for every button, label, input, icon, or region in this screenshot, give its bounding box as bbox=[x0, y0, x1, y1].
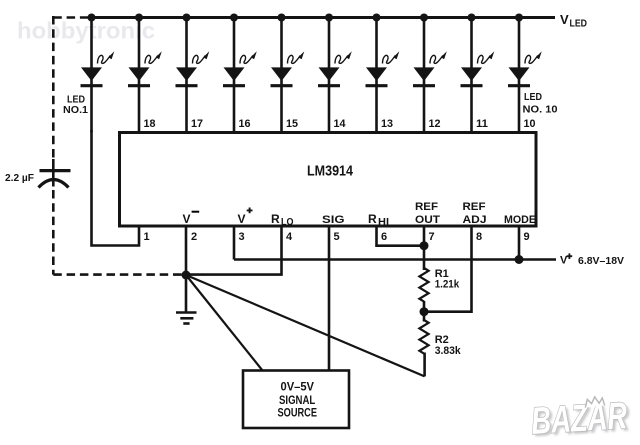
svg-text:hobbytronic: hobbytronic bbox=[17, 18, 155, 44]
svg-text:R: R bbox=[271, 212, 280, 226]
svg-text:REF: REF bbox=[463, 201, 486, 213]
svg-text:3: 3 bbox=[239, 231, 245, 243]
svg-text:15: 15 bbox=[286, 118, 298, 130]
svg-text:4: 4 bbox=[286, 231, 293, 243]
svg-text:9: 9 bbox=[524, 231, 530, 243]
svg-text:LO: LO bbox=[281, 217, 294, 228]
svg-text:NO.1: NO.1 bbox=[63, 105, 88, 116]
svg-text:8: 8 bbox=[476, 231, 482, 243]
svg-text:MODE: MODE bbox=[504, 214, 536, 226]
svg-text:V: V bbox=[183, 212, 191, 226]
svg-text:1.21k: 1.21k bbox=[435, 279, 460, 291]
svg-text:ADJ: ADJ bbox=[463, 214, 487, 226]
svg-text:HI: HI bbox=[378, 217, 389, 228]
svg-text:14: 14 bbox=[334, 118, 347, 130]
svg-text:7: 7 bbox=[429, 231, 435, 243]
svg-text:16: 16 bbox=[239, 118, 251, 130]
svg-text:BAZAR: BAZAR bbox=[530, 395, 629, 443]
svg-text:6: 6 bbox=[381, 231, 387, 243]
svg-text:LED: LED bbox=[524, 92, 542, 103]
svg-text:LED: LED bbox=[570, 19, 588, 30]
svg-text:R: R bbox=[368, 212, 377, 226]
svg-text:0V–5V: 0V–5V bbox=[281, 380, 315, 394]
svg-text:SIG: SIG bbox=[322, 214, 345, 226]
svg-text:11: 11 bbox=[476, 118, 488, 130]
svg-text:SOURCE: SOURCE bbox=[278, 405, 318, 419]
svg-text:V: V bbox=[560, 12, 569, 27]
svg-text:3.83k: 3.83k bbox=[435, 345, 462, 357]
svg-text:10: 10 bbox=[524, 118, 536, 130]
svg-text:13: 13 bbox=[381, 118, 393, 130]
svg-text:LED: LED bbox=[67, 95, 85, 106]
svg-text:12: 12 bbox=[429, 118, 441, 130]
svg-text:V: V bbox=[238, 212, 246, 226]
svg-text:6.8V–18V: 6.8V–18V bbox=[578, 255, 624, 267]
svg-text:REF: REF bbox=[415, 201, 438, 213]
svg-text:OUT: OUT bbox=[415, 214, 440, 226]
svg-text:17: 17 bbox=[191, 118, 203, 130]
svg-text:5: 5 bbox=[334, 231, 340, 243]
svg-text:LM3914: LM3914 bbox=[307, 163, 354, 180]
svg-text:2: 2 bbox=[191, 231, 197, 243]
svg-text:18: 18 bbox=[144, 118, 156, 130]
svg-text:2.2 µF: 2.2 µF bbox=[5, 173, 34, 184]
svg-text:1: 1 bbox=[144, 231, 150, 243]
svg-text:NO. 10: NO. 10 bbox=[523, 105, 558, 116]
